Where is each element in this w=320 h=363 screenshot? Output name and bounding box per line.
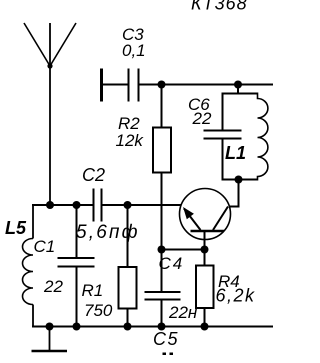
svg-text:12k: 12k	[116, 131, 145, 150]
resistor R1	[119, 267, 137, 309]
capacitor C3	[129, 69, 139, 102]
clipped caption marks	[163, 353, 174, 356]
ground	[32, 327, 68, 352]
svg-text:КТ368: КТ368	[191, 0, 248, 14]
wire L5 bottom lead	[32, 305, 34, 328]
wire tank left upper	[222, 93, 224, 130]
capacitor C6	[204, 131, 242, 139]
wire tank bottom	[223, 179, 258, 181]
wire R1 top lead	[127, 205, 129, 267]
resistor R2	[153, 128, 171, 173]
node top rail / R2	[158, 81, 166, 89]
capacitor C4	[145, 292, 181, 300]
inductor L5	[23, 239, 33, 305]
svg-text:750: 750	[84, 301, 113, 320]
antenna WA1	[24, 23, 76, 205]
wire emitter rail right segment	[103, 204, 181, 206]
inductor L1	[258, 93, 268, 181]
node tank / collector	[235, 176, 243, 184]
node base / R4	[201, 246, 209, 254]
capacitor C1	[58, 258, 95, 267]
wire R2 bottom to C4 (crosses emitter rail)	[161, 173, 163, 292]
svg-text:22: 22	[43, 277, 63, 296]
wire collector lead	[229, 180, 239, 207]
wire C4 bottom lead	[161, 301, 163, 327]
svg-text:C5: C5	[153, 329, 179, 349]
node ground / earth	[46, 323, 54, 331]
svg-text:22н: 22н	[168, 303, 198, 322]
capacitor C2	[94, 189, 102, 222]
node R1 / rail	[124, 201, 132, 209]
node C4 / ground rail	[158, 323, 166, 331]
wire base lead	[204, 231, 206, 250]
node top rail / C6-L1	[234, 81, 242, 89]
node R4 / ground rail	[201, 323, 209, 331]
resistor R4	[196, 266, 214, 309]
wire base net horizontal	[162, 249, 205, 251]
svg-text:L5: L5	[5, 218, 27, 238]
wire C1 bottom lead	[76, 268, 78, 327]
wire R1 bottom lead	[127, 309, 129, 327]
wire emitter rail left segment	[32, 204, 93, 206]
svg-text:6,2k: 6,2k	[216, 286, 256, 306]
wire terminal to C3	[103, 84, 128, 86]
node antenna / rail	[46, 201, 54, 209]
svg-text:C4: C4	[159, 254, 185, 273]
svg-text:L1: L1	[225, 143, 246, 163]
wire C3 to right edge (top rail)	[140, 84, 274, 86]
wire tank left lower	[222, 140, 224, 181]
svg-text:C2: C2	[82, 165, 105, 185]
wire C1 top lead	[76, 205, 78, 257]
svg-text:C1: C1	[34, 237, 56, 256]
wire R4 bottom lead	[204, 308, 206, 327]
wire R2 top lead	[161, 85, 163, 128]
svg-text:0,1: 0,1	[122, 41, 146, 60]
svg-text:5,6пф: 5,6пф	[76, 222, 140, 243]
svg-text:R1: R1	[82, 281, 104, 300]
input terminal bar	[100, 69, 103, 102]
wire tank top	[223, 93, 258, 95]
wire L5 top lead	[32, 204, 34, 239]
svg-text:22: 22	[192, 109, 212, 128]
node C1 / rail	[73, 201, 81, 209]
node R2-C4 / base wire	[158, 246, 166, 254]
node R1 / ground rail	[124, 323, 132, 331]
wire ground rail (bottom)	[32, 326, 273, 328]
wire R4 top lead	[204, 250, 206, 266]
node C1 / ground rail	[73, 323, 81, 331]
wire stub top rail to tank	[237, 85, 239, 94]
transistor VT1	[180, 189, 231, 240]
